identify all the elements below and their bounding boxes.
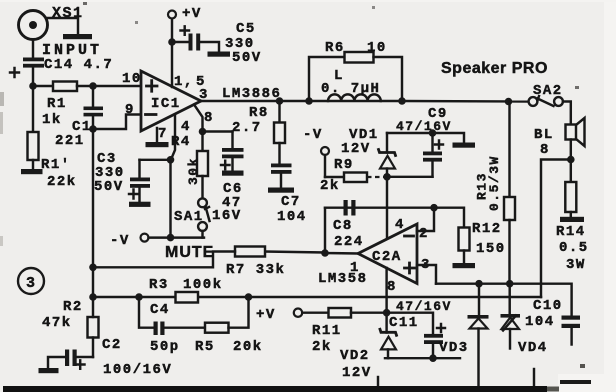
svg-text:7: 7 bbox=[158, 126, 168, 142]
svg-text:50V: 50V bbox=[232, 50, 262, 66]
resistor R11 2k bbox=[302, 308, 386, 355]
wire bbox=[140, 159, 171, 161]
node bbox=[168, 38, 176, 46]
wire bbox=[200, 42, 219, 52]
resistor R14 0.5 3W bbox=[556, 160, 589, 274]
ground (XS1 sleeve) bbox=[46, 18, 92, 39]
node (pin 9 net) bbox=[89, 125, 97, 133]
svg-text:SA2: SA2 bbox=[533, 83, 563, 99]
svg-text:8: 8 bbox=[540, 142, 550, 158]
svg-text:2k: 2k bbox=[320, 178, 340, 194]
svg-text:VD2: VD2 bbox=[340, 348, 370, 364]
node (V-12 net) bbox=[383, 173, 391, 181]
wire bbox=[32, 40, 34, 58]
svg-text:C11: C11 bbox=[389, 315, 419, 331]
resistor R7 33k bbox=[93, 247, 325, 279]
svg-text:IC1: IC1 bbox=[151, 96, 181, 112]
svg-text:10: 10 bbox=[367, 40, 387, 56]
diode VD4 bbox=[501, 284, 548, 356]
wire bbox=[32, 160, 34, 169]
svg-text:C14 4.7: C14 4.7 bbox=[44, 57, 113, 73]
terminal +V bbox=[168, 6, 202, 22]
capacitor C10 104 bbox=[525, 298, 580, 345]
svg-text:3: 3 bbox=[26, 275, 37, 292]
wire (dashed link) bbox=[367, 176, 384, 178]
wire (inverting net vertical) bbox=[92, 129, 94, 297]
wire bbox=[77, 85, 141, 87]
wire (stray tick) bbox=[377, 377, 379, 390]
wire (V-12 rail) bbox=[387, 176, 433, 178]
resistor R3 100k bbox=[149, 277, 223, 303]
wire (to C2A pin 4) bbox=[386, 177, 388, 239]
wire (pin 4 of IC1 down) bbox=[171, 115, 175, 160]
svg-text:C5: C5 bbox=[236, 21, 256, 37]
svg-text:12V: 12V bbox=[341, 141, 371, 157]
svg-text:VD3: VD3 bbox=[439, 340, 469, 356]
wire (stray tick) bbox=[533, 369, 535, 388]
svg-text:8: 8 bbox=[387, 279, 397, 295]
terminal -V (mute) bbox=[110, 233, 149, 249]
svg-text:2: 2 bbox=[419, 226, 429, 242]
svg-text:1,: 1, bbox=[174, 74, 194, 90]
node (input junction) bbox=[29, 82, 37, 90]
svg-text:47/16V: 47/16V bbox=[396, 119, 452, 134]
ground bbox=[208, 52, 231, 57]
capacitor C8 224 bbox=[333, 200, 364, 250]
wire (R12 feed) bbox=[434, 208, 464, 228]
node bbox=[567, 156, 575, 164]
svg-text:30k: 30k bbox=[186, 157, 201, 185]
svg-text:3W: 3W bbox=[566, 257, 586, 273]
node (mute net) bbox=[199, 128, 207, 136]
svg-text:R2: R2 bbox=[63, 299, 83, 315]
wire bbox=[32, 86, 34, 132]
inductor L 0.7uH bbox=[309, 68, 402, 101]
ground bbox=[453, 143, 476, 148]
resistor R4 30k bbox=[171, 132, 208, 199]
svg-text:100k: 100k bbox=[183, 277, 223, 293]
svg-text:104: 104 bbox=[525, 314, 555, 330]
svg-text:104: 104 bbox=[277, 209, 307, 225]
zener diode VD2 12V bbox=[340, 329, 397, 381]
svg-text:R5: R5 bbox=[195, 339, 215, 355]
node bbox=[89, 264, 97, 272]
svg-text:LM358: LM358 bbox=[318, 271, 368, 287]
resistor R6 10 (parallel branch) bbox=[309, 40, 402, 101]
wire (pin 3 to sense rail) bbox=[417, 265, 436, 284]
svg-text:224: 224 bbox=[334, 234, 364, 250]
resistor R1' 22k bbox=[28, 132, 77, 190]
svg-text:12V: 12V bbox=[342, 365, 372, 381]
svg-text:-V: -V bbox=[303, 127, 323, 143]
svg-text:22k: 22k bbox=[47, 174, 77, 190]
node bbox=[383, 309, 391, 317]
wire (feedback rail B) bbox=[93, 296, 541, 298]
svg-text:R14: R14 bbox=[556, 224, 586, 240]
svg-text:MUTE: MUTE bbox=[165, 244, 214, 261]
wire (short bottom segment) bbox=[560, 380, 591, 384]
capacitor C9 47/16V bbox=[396, 106, 452, 177]
node bbox=[430, 204, 438, 212]
svg-text:LM3886: LM3886 bbox=[222, 86, 281, 102]
svg-text:221: 221 bbox=[55, 133, 85, 149]
svg-text:R11: R11 bbox=[312, 323, 342, 339]
resistor R13 0.5/3W bbox=[475, 102, 516, 284]
capacitor C6 47/16V bbox=[212, 132, 244, 225]
node bbox=[429, 129, 437, 137]
resistor R8 2.7 bbox=[232, 101, 285, 143]
node bbox=[506, 280, 514, 288]
node (circled 3 page marker) bbox=[18, 268, 44, 294]
wire (V- rail down to -V switch rail) bbox=[169, 160, 171, 238]
bottom scan bar bbox=[3, 386, 547, 392]
ground bbox=[21, 169, 43, 174]
node bbox=[135, 293, 143, 301]
wire (speaker line) bbox=[402, 100, 529, 103]
node bbox=[245, 293, 253, 301]
wire (pin 2) bbox=[417, 208, 434, 231]
svg-text:0.5/3W: 0.5/3W bbox=[487, 155, 502, 211]
svg-text:8: 8 bbox=[204, 110, 214, 126]
resistor R1 1k bbox=[42, 82, 77, 129]
svg-text:47/16V: 47/16V bbox=[396, 299, 452, 314]
svg-text:VD4: VD4 bbox=[518, 340, 548, 356]
svg-text:R7 33k: R7 33k bbox=[226, 262, 285, 278]
svg-text:2.7: 2.7 bbox=[232, 120, 262, 136]
node (V- net) bbox=[167, 156, 175, 164]
capacitor C2 100/16V bbox=[39, 337, 173, 378]
zener diode VD1 12V bbox=[341, 127, 396, 177]
svg-text:50V: 50V bbox=[94, 179, 124, 195]
wire (bottom clamp rail) bbox=[385, 357, 460, 359]
svg-text:100/16V: 100/16V bbox=[103, 362, 172, 378]
node bbox=[321, 249, 329, 257]
resistor R9 2k bbox=[320, 155, 367, 194]
node bbox=[89, 82, 97, 90]
svg-text:+V: +V bbox=[182, 6, 202, 22]
node bbox=[475, 280, 483, 288]
wire bbox=[33, 85, 53, 87]
svg-text:-V: -V bbox=[110, 233, 130, 249]
wire (pins 1,5 to +V) bbox=[171, 18, 173, 87]
svg-text:2k: 2k bbox=[312, 339, 332, 355]
svg-text:R1: R1 bbox=[47, 96, 67, 112]
ground (IC1 pin 7) bbox=[146, 126, 169, 147]
wire bbox=[563, 102, 571, 125]
wire bbox=[201, 231, 203, 238]
svg-text:1: 1 bbox=[350, 260, 360, 276]
connector XS1 bbox=[19, 5, 84, 40]
svg-text:Speaker PRO: Speaker PRO bbox=[441, 60, 548, 77]
wire (C2A pin 8 down) bbox=[385, 268, 387, 333]
svg-text:20k: 20k bbox=[233, 339, 263, 355]
wire (IC1 output) bbox=[201, 100, 309, 102]
wire (sense rail A) bbox=[436, 284, 572, 316]
wire (C2A output pin 1) bbox=[325, 208, 358, 254]
resistor R2 47k bbox=[42, 297, 99, 357]
wire (zener/C9 top rail) bbox=[387, 133, 464, 143]
capacitor C14 4.7 bbox=[10, 57, 113, 77]
capacitor C7 104 bbox=[268, 143, 307, 225]
svg-text:C7: C7 bbox=[281, 194, 301, 210]
node bbox=[89, 293, 97, 301]
wire bbox=[32, 68, 34, 86]
svg-text:10: 10 bbox=[122, 71, 142, 87]
terminal -V (upper) bbox=[303, 127, 329, 155]
capacitor C1 221 bbox=[55, 86, 103, 149]
svg-text:R8: R8 bbox=[249, 105, 269, 121]
svg-text:R1': R1' bbox=[41, 157, 71, 173]
wire (V+12 rail to C11) bbox=[387, 313, 433, 334]
svg-text:50p: 50p bbox=[150, 339, 180, 355]
wire (IC1 pin 8) bbox=[194, 105, 203, 132]
svg-text:47k: 47k bbox=[42, 315, 72, 331]
node bbox=[429, 354, 437, 362]
svg-text:1k: 1k bbox=[42, 112, 62, 128]
switch SA2 bbox=[529, 83, 563, 106]
svg-text:SA1: SA1 bbox=[174, 209, 204, 225]
svg-text:C10: C10 bbox=[533, 298, 563, 314]
op-amp C2A LM358 bbox=[318, 224, 431, 295]
wire (to pin 9) bbox=[93, 115, 141, 130]
diode VD3 bbox=[439, 284, 489, 391]
svg-text:R4: R4 bbox=[171, 134, 191, 150]
svg-text:INPUT: INPUT bbox=[42, 42, 102, 59]
node bbox=[505, 98, 513, 106]
capacitor C4 50p bbox=[139, 297, 180, 355]
svg-text:16V: 16V bbox=[212, 208, 242, 224]
speaker BL 8 bbox=[534, 118, 585, 158]
svg-text:C2: C2 bbox=[102, 337, 122, 353]
wire bbox=[203, 130, 233, 132]
wire (feedback rail) bbox=[325, 206, 434, 208]
node bbox=[167, 234, 175, 242]
op-amp IC1 LM3886 bbox=[141, 71, 281, 131]
capacitor C11 47/16V bbox=[389, 299, 452, 358]
svg-text:C8: C8 bbox=[333, 218, 353, 234]
node bbox=[398, 97, 406, 105]
wire (sense tap) bbox=[541, 160, 571, 298]
wire (scan smudge) bbox=[0, 92, 4, 106]
capacitor C5 330 50V bbox=[181, 21, 262, 66]
node bbox=[305, 97, 313, 105]
wire bbox=[172, 41, 189, 43]
svg-text:0.5: 0.5 bbox=[559, 240, 589, 256]
wire bbox=[570, 140, 572, 161]
resistor R12 150 bbox=[453, 221, 506, 268]
svg-text:4: 4 bbox=[181, 119, 191, 135]
wire bbox=[149, 236, 205, 238]
svg-text:R12: R12 bbox=[472, 221, 502, 237]
switch SA1 bbox=[174, 198, 210, 231]
capacitor C3 330 50V bbox=[94, 151, 151, 207]
svg-text:+V: +V bbox=[256, 307, 276, 323]
svg-text:R3: R3 bbox=[149, 277, 169, 293]
terminal +V (lower) bbox=[256, 307, 302, 323]
svg-text:BL: BL bbox=[534, 127, 554, 143]
resistor R5 20k bbox=[165, 297, 263, 355]
svg-text:R9: R9 bbox=[334, 157, 354, 173]
svg-text:C4: C4 bbox=[150, 302, 170, 318]
svg-text:R6: R6 bbox=[325, 40, 345, 56]
svg-text:150: 150 bbox=[476, 241, 506, 257]
node bbox=[276, 97, 284, 105]
svg-text:9: 9 bbox=[125, 102, 135, 118]
svg-text:C2A: C2A bbox=[372, 249, 402, 265]
svg-text:0. 7μH: 0. 7μH bbox=[321, 81, 380, 97]
